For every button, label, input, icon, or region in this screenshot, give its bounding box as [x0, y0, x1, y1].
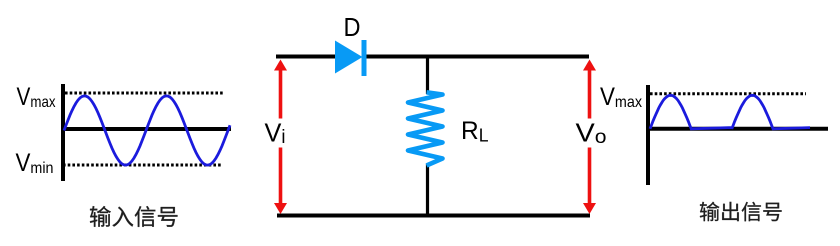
svg-text:D: D	[344, 12, 361, 42]
